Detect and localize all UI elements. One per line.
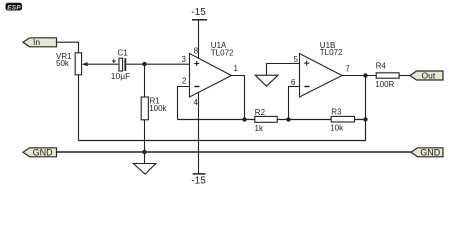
connector GND right [411,147,443,157]
resistor R2 [255,108,278,133]
svg-text:7: 7 [345,64,350,73]
op-amp U1B [300,41,344,97]
svg-text:5: 5 [294,55,299,64]
connector Out [410,70,443,80]
svg-text:10µF: 10µF [111,71,131,81]
potentiometer VR1 [56,52,119,75]
wire U1B pin 5 to ground [267,64,300,76]
svg-text:Out: Out [422,70,436,80]
wire C1 to U1A pin 3 [126,63,189,65]
wire U1A pin 2 feedback [178,87,190,120]
plus sign input U1A [194,63,199,65]
svg-text:1k: 1k [255,124,264,133]
ESP logo badge [6,3,23,12]
svg-text:TL072: TL072 [211,48,234,57]
node junction R3/output riser [363,117,367,121]
connector In [23,37,57,47]
svg-text:GND: GND [420,147,441,157]
svg-text:100R: 100R [375,80,394,89]
svg-text:2: 2 [182,77,187,86]
svg-text:1: 1 [234,64,239,73]
wiper arrow of VR1 [82,62,88,66]
wire In to VR1 top [57,42,79,53]
wire bus to U1B pin 6 [289,87,300,120]
svg-text:TL072: TL072 [320,48,343,57]
svg-text:8: 8 [194,47,199,56]
svg-text:10k: 10k [330,124,344,133]
node junction output/R4 [363,73,367,77]
svg-text:C1: C1 [118,49,129,58]
wire ground bus [57,151,412,153]
minus sign input U1A [194,86,199,88]
node junction U1A out/bus [242,117,246,121]
ground symbol left [133,152,156,174]
node junction R1/ground bus [142,150,146,154]
capacitor C1 [111,49,131,82]
ground symbol at U1B [255,75,278,86]
wire R4 to Out [399,75,410,77]
power stub V- bottom of U1A [198,92,200,174]
power rail bar -15 bottom [193,173,206,175]
svg-text:R4: R4 [376,61,387,70]
svg-text:R3: R3 [331,108,342,117]
plus sign of C1 [112,59,116,63]
svg-text:6: 6 [291,78,296,87]
node junction C1/R1 [142,62,146,66]
svg-text:In: In [33,37,40,47]
svg-text:ESP: ESP [7,4,21,11]
wire VR1 bottom to lower-left corner [78,75,80,141]
power stub V+ top of U1A [198,20,200,59]
svg-text:3: 3 [182,55,187,64]
power rail bar -15 top [192,19,207,21]
plus sign input U1B [304,62,309,64]
svg-text:50k: 50k [56,59,70,68]
minus sign input U1B [304,86,309,88]
wire riser output node [365,76,367,120]
op-amp U1A [190,41,235,97]
node junction R2/pin6 [286,117,290,121]
wire bottom link to VR1 [79,120,366,141]
svg-text:4: 4 [194,98,199,107]
resistor R3 [330,108,354,133]
svg-text:100k: 100k [149,104,167,113]
svg-text:-15: -15 [191,7,206,18]
wire feedback bus [178,119,366,121]
svg-text:-15: -15 [191,176,206,187]
svg-text:R2: R2 [255,108,266,117]
wire U1A output down to bus [232,76,245,120]
wire U1B output to R4 [342,75,376,77]
connector GND left [23,147,57,157]
svg-text:GND: GND [33,147,54,157]
resistor R4 [375,61,399,89]
resistor R1 [141,64,167,152]
